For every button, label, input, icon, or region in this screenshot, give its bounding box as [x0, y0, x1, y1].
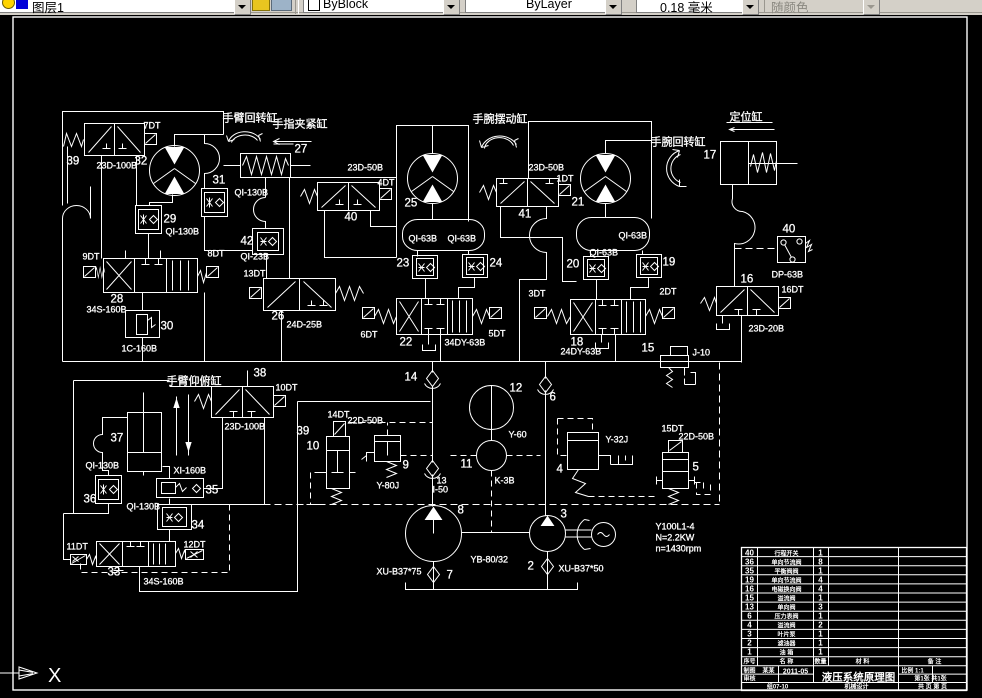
- T drain of valve 5: [695, 483, 711, 495]
- solenoid 1DT of valve 41: [559, 185, 571, 196]
- wire bridge arc left edge: [63, 187, 91, 219]
- svg-text:42: 42: [241, 236, 254, 248]
- svg-text:n=1430rpm: n=1430rpm: [656, 544, 702, 554]
- wire 27 left: [224, 165, 241, 167]
- svg-text:34DY-63B: 34DY-63B: [445, 338, 486, 348]
- wire valve41 down: [501, 207, 577, 362]
- wire motor25 top port: [432, 126, 434, 154]
- svg-text:38: 38: [254, 368, 267, 380]
- check-throttle valve 36 QI-130B: [96, 476, 122, 504]
- check-throttle valve 19 QI-63B: [637, 255, 662, 278]
- svg-text:比例 1:1: 比例 1:1: [901, 667, 924, 675]
- svg-text:15: 15: [642, 343, 655, 355]
- svg-text:平衡阀阀: 平衡阀阀: [774, 568, 798, 576]
- svg-text:J-10: J-10: [693, 348, 711, 358]
- wire line rail to pump3: [545, 362, 547, 516]
- svg-text:41: 41: [519, 209, 532, 221]
- svg-text:10: 10: [307, 441, 320, 453]
- table row lines: [742, 557, 967, 683]
- wire valve40 ports down: [325, 211, 397, 258]
- svg-text:1C-160B: 1C-160B: [122, 344, 158, 354]
- wire K3B links: [449, 455, 541, 457]
- check-throttle valve 34 QI-130B: [158, 505, 192, 530]
- wire pump3 to tank: [547, 552, 549, 590]
- T drain of valve 22: [423, 335, 436, 351]
- svg-text:34S-160B: 34S-160B: [144, 577, 184, 587]
- solenoid 15DT: [669, 441, 683, 453]
- spring left of valve 16: [701, 298, 717, 311]
- svg-text:单向阀: 单向阀: [777, 604, 795, 612]
- svg-text:22: 22: [400, 337, 413, 349]
- svg-text:3: 3: [747, 630, 752, 639]
- spring below valve 4: [573, 470, 589, 497]
- valve 10 22D-50B cartridge: [321, 437, 356, 489]
- svg-text:2: 2: [747, 639, 752, 648]
- T drain of valve 16: [717, 316, 730, 330]
- wire motor21 bottom: [605, 204, 607, 218]
- wire valve31 top stub: [204, 176, 206, 189]
- svg-text:QI-63B: QI-63B: [619, 231, 648, 241]
- spring right of valve 33: [176, 549, 186, 559]
- pump 8: [406, 506, 462, 562]
- gauge circle 12 Y-60: [470, 386, 514, 441]
- svg-text:37: 37: [111, 433, 124, 445]
- check valve 13: [425, 461, 441, 479]
- electric motor circle: [592, 523, 616, 547]
- positioning arrows: [727, 123, 775, 132]
- wire valve18 P down: [615, 335, 617, 362]
- manifold scallop under motor 25: [403, 220, 485, 251]
- svg-text:定位缸: 定位缸: [730, 110, 763, 124]
- svg-text:XI-160B: XI-160B: [174, 466, 207, 476]
- svg-text:溢流阀: 溢流阀: [777, 622, 795, 630]
- svg-text:4: 4: [818, 585, 823, 594]
- svg-text:XU-B37*50: XU-B37*50: [559, 564, 604, 574]
- svg-text:溢流阀: 溢流阀: [777, 595, 795, 603]
- motor 32: [150, 146, 200, 196]
- svg-text:1: 1: [818, 567, 823, 576]
- valve 5 22D-50B cartridge: [657, 453, 695, 489]
- svg-text:电磁换向阀: 电磁换向阀: [771, 586, 801, 594]
- check-throttle valve 31 QI-130B: [202, 189, 228, 217]
- svg-text:35: 35: [206, 485, 219, 497]
- svg-text:40: 40: [345, 212, 358, 224]
- svg-text:QI-130B: QI-130B: [127, 502, 161, 512]
- rotate arrow arc A: [227, 132, 263, 143]
- wire main pump riser: [432, 362, 434, 507]
- svg-text:X: X: [48, 665, 61, 687]
- svg-text:23D-100B: 23D-100B: [225, 422, 266, 432]
- spring box 27: [241, 154, 311, 178]
- wire 20/19 to valve 18: [591, 251, 649, 300]
- svg-text:K-3B: K-3B: [495, 476, 515, 486]
- svg-text:16DT: 16DT: [782, 285, 805, 295]
- svg-text:8: 8: [458, 505, 464, 517]
- valve 28 34S-160B body: [104, 251, 198, 293]
- solenoid 11DT: [71, 555, 87, 565]
- svg-text:QI-63B: QI-63B: [448, 234, 477, 244]
- svg-text:压力表阀: 压力表阀: [774, 613, 798, 621]
- solenoid 6DT: [363, 308, 375, 319]
- toolbar: [0, 0, 982, 15]
- wire motor32 top port: [175, 135, 205, 147]
- svg-text:10DT: 10DT: [276, 383, 299, 393]
- wire valve32 A/B lines down: [102, 156, 137, 259]
- svg-text:制图: 制图: [743, 667, 755, 675]
- valve 35 XI-160B: [157, 479, 204, 498]
- svg-text:20: 20: [567, 259, 580, 271]
- valve 15 J-10: [661, 347, 696, 388]
- spring left of valve 22: [375, 310, 397, 324]
- svg-text:备 注: 备 注: [927, 658, 942, 666]
- svg-text:手臂回转缸: 手臂回转缸: [223, 111, 278, 125]
- solenoid 2DT: [663, 308, 675, 319]
- svg-text:23D-100B: 23D-100B: [97, 161, 138, 171]
- wire group A outline top: [63, 112, 224, 362]
- cylinder 17: [721, 142, 798, 185]
- motor rotation arc: [577, 520, 590, 550]
- svg-text:1: 1: [818, 639, 823, 648]
- svg-text:1: 1: [818, 594, 823, 603]
- spring right of DP valve: [806, 241, 813, 252]
- svg-text:9DT: 9DT: [83, 252, 101, 262]
- svg-text:26: 26: [272, 311, 285, 323]
- svg-text:1: 1: [818, 630, 823, 639]
- svg-text:7: 7: [447, 570, 453, 582]
- svg-text:2: 2: [818, 621, 823, 630]
- svg-text:名 称: 名 称: [780, 658, 794, 666]
- svg-text:27: 27: [295, 144, 308, 156]
- svg-text:1: 1: [818, 612, 823, 621]
- solenoid 7DT of valve 32: [145, 134, 157, 145]
- svg-text:39: 39: [67, 156, 80, 168]
- wire group E outline: [74, 371, 248, 514]
- svg-text:第1张 共1张: 第1张 共1张: [913, 675, 947, 683]
- valve 33 34S-160B body: [97, 542, 176, 567]
- svg-text:4: 4: [747, 621, 752, 630]
- svg-text:17: 17: [704, 150, 717, 162]
- svg-text:16: 16: [745, 585, 754, 594]
- svg-text:8: 8: [818, 558, 823, 567]
- svg-text:34S-160B: 34S-160B: [87, 305, 127, 315]
- check-throttle valve 23 QI-63B: [413, 256, 438, 279]
- svg-text:4: 4: [818, 576, 823, 585]
- wire 26 down to rail: [281, 311, 283, 362]
- cylinder 37 body: [128, 393, 162, 472]
- spring right of valve 22: [473, 310, 490, 324]
- check-throttle valve 42 QI-23B: [253, 229, 284, 255]
- svg-text:手腕回转缸: 手腕回转缸: [651, 135, 706, 149]
- wire group A right bump: [205, 135, 224, 187]
- wire 29 to 28: [148, 234, 150, 259]
- svg-text:40: 40: [783, 224, 796, 236]
- spring left of valve 40: [301, 190, 318, 204]
- svg-text:23D-50B: 23D-50B: [348, 163, 384, 173]
- svg-text:6: 6: [747, 612, 752, 621]
- spring below valve 10: [332, 489, 342, 505]
- svg-text:单向节流阀: 单向节流阀: [771, 559, 801, 567]
- relief valve 4 Y-32J: [568, 433, 633, 470]
- solenoid 8DT: [207, 267, 219, 278]
- check-throttle valve 29 QI-130B: [136, 206, 162, 234]
- wire 42 down to 26: [266, 255, 268, 279]
- valve 39 spring: [64, 134, 84, 147]
- svg-text:2011-05: 2011-05: [783, 669, 808, 676]
- solenoid 5DT: [490, 308, 502, 319]
- svg-text:3DT: 3DT: [529, 289, 547, 299]
- svg-text:1: 1: [818, 549, 823, 558]
- svg-text:DP-63B: DP-63B: [772, 270, 804, 280]
- wire valve22 P down: [440, 335, 442, 362]
- wire station top edge: [298, 401, 431, 403]
- svg-text:4DT: 4DT: [378, 178, 396, 188]
- svg-text:机械设计: 机械设计: [844, 683, 868, 691]
- svg-text:23D-50B: 23D-50B: [529, 163, 565, 173]
- svg-text:YB-80/32: YB-80/32: [471, 555, 509, 565]
- wire cylinder rod rise arrows: [174, 395, 191, 456]
- pump 3: [530, 516, 566, 552]
- svg-text:Y100L1-4: Y100L1-4: [656, 522, 695, 532]
- wire motor21 top port: [606, 141, 652, 154]
- wire dashed pilot to DP valve: [735, 248, 778, 250]
- spring right of valve 28: [198, 271, 207, 283]
- relief valve 9 Y-80J: [362, 436, 401, 462]
- svg-text:行程开关: 行程开关: [773, 550, 798, 558]
- svg-text:13: 13: [745, 603, 754, 612]
- svg-text:审核: 审核: [743, 675, 755, 683]
- wire 33 return U pipe: [140, 402, 298, 592]
- spring left of valve 38: [195, 395, 212, 409]
- wire pump8 to filter: [433, 562, 435, 590]
- svg-text:31: 31: [213, 175, 226, 187]
- svg-text:9: 9: [403, 460, 409, 472]
- solenoid 16DT: [779, 298, 791, 309]
- table outer border: [742, 548, 967, 691]
- svg-text:2: 2: [528, 561, 534, 573]
- svg-text:序号: 序号: [742, 658, 755, 666]
- svg-text:Y-80J: Y-80J: [377, 481, 400, 491]
- wire 38 to 35/34: [192, 418, 265, 505]
- solenoid 14DT: [334, 422, 346, 437]
- T drain of valve 18: [596, 335, 609, 349]
- wire main rail: [63, 293, 742, 362]
- svg-text:手腕摆动缸: 手腕摆动缸: [473, 112, 528, 126]
- svg-text:14: 14: [405, 372, 418, 384]
- svg-text:30: 30: [161, 321, 174, 333]
- svg-text:某某: 某某: [762, 667, 775, 675]
- valve 40 23D-50B body: [318, 183, 380, 211]
- solenoid 4DT of valve 40: [380, 189, 392, 200]
- spring left of valve 18: [548, 310, 571, 324]
- svg-text:液压系统原理图: 液压系统原理图: [822, 671, 896, 684]
- svg-text:5: 5: [693, 462, 699, 474]
- check valve 6: [538, 377, 554, 395]
- valve 16 23D-20B body: [717, 287, 779, 316]
- dashed box around valve 4: [558, 419, 593, 456]
- wire 33 left link: [64, 514, 74, 560]
- spring left of valve 41: [480, 186, 497, 200]
- title block inner verticals: [779, 666, 933, 683]
- wire dashed box around 33: [81, 505, 230, 573]
- svg-text:35: 35: [745, 567, 754, 576]
- svg-text:I-50: I-50: [433, 485, 449, 495]
- solenoid 13DT: [250, 288, 262, 299]
- UCS icon arrow: [0, 667, 37, 679]
- svg-text:油 箱: 油 箱: [780, 649, 794, 657]
- wire dashed 4 to 5: [589, 496, 659, 498]
- wire valve16 down to rail: [741, 316, 743, 363]
- svg-text:数量: 数量: [814, 658, 826, 666]
- svg-text:3: 3: [818, 603, 823, 612]
- wire pump shaft link: [462, 532, 530, 534]
- svg-text:11DT: 11DT: [67, 542, 89, 552]
- svg-text:手臂仰俯缸: 手臂仰俯缸: [167, 374, 222, 388]
- solenoid 3DT: [535, 308, 547, 319]
- wire group B outline: [290, 126, 469, 279]
- svg-text:34: 34: [192, 520, 205, 532]
- solenoid 9DT: [84, 267, 96, 278]
- rotate arrow arc B: [480, 136, 519, 148]
- motor 21: [581, 154, 631, 204]
- svg-text:36: 36: [745, 558, 754, 567]
- svg-text:21: 21: [572, 197, 585, 209]
- svg-text:4: 4: [557, 464, 564, 476]
- finger clamp arrow: [274, 139, 312, 145]
- svg-text:13DT: 13DT: [244, 269, 267, 279]
- check valve 14: [425, 371, 441, 389]
- manifold scallop under motor 21: [577, 218, 650, 251]
- svg-text:15: 15: [745, 594, 754, 603]
- svg-text:24D-25B: 24D-25B: [287, 320, 323, 330]
- svg-text:QI-23B: QI-23B: [241, 252, 270, 262]
- wire 28 to 30: [142, 293, 144, 362]
- svg-text:XU-B37*75: XU-B37*75: [377, 567, 422, 577]
- motor shaft coupling: [566, 530, 592, 537]
- spring left of valve 28: [95, 268, 105, 278]
- wire motor32 bottom port: [150, 195, 173, 206]
- svg-text:N=2.2KW: N=2.2KW: [656, 533, 695, 543]
- wire 23/24 to valve 22: [418, 251, 475, 299]
- check-throttle valve 20 QI-63B: [584, 257, 609, 280]
- wire group C outline: [529, 122, 652, 219]
- svg-text:36: 36: [84, 494, 97, 506]
- svg-text:23D-20B: 23D-20B: [749, 324, 785, 334]
- svg-text:组07-10: 组07-10: [767, 683, 789, 691]
- valve 38 23D-100B body: [212, 387, 274, 418]
- svg-text:1: 1: [747, 648, 752, 657]
- T port below 33: [114, 567, 124, 571]
- svg-text:19: 19: [745, 576, 754, 585]
- solenoid 12DT: [186, 550, 204, 560]
- svg-text:11: 11: [461, 459, 473, 471]
- wire dashed 9 pilot: [388, 423, 433, 456]
- svg-text:Y-32J: Y-32J: [606, 435, 629, 445]
- svg-text:25: 25: [405, 198, 418, 210]
- svg-text:6: 6: [550, 392, 556, 404]
- svg-text:24: 24: [490, 258, 503, 270]
- svg-text:手指夹紧缸: 手指夹紧缸: [273, 117, 328, 131]
- svg-text:叶片泵: 叶片泵: [777, 631, 796, 639]
- wire motor25 bottom into manifold: [433, 153, 469, 222]
- svg-text:8DT: 8DT: [208, 249, 226, 259]
- wire 17 down with bump: [732, 185, 755, 287]
- wire 36 down: [74, 504, 109, 514]
- wire cyl left pipe with bump: [94, 418, 128, 476]
- wire dashed drain 10: [307, 473, 321, 505]
- spring below valve 5: [669, 489, 679, 505]
- gauge circle 11 K-3B: [477, 441, 507, 471]
- check-throttle valve 24 QI-63B: [463, 255, 488, 278]
- svg-text:40: 40: [745, 549, 754, 558]
- wire cyl bottom to 34: [144, 467, 170, 542]
- filter 7: [428, 567, 440, 583]
- tank line: [406, 583, 578, 590]
- svg-text:39: 39: [297, 426, 310, 438]
- wire 31 down to rail: [205, 217, 253, 251]
- wire 27 down bump to 42: [254, 178, 266, 229]
- motor 25: [408, 154, 458, 204]
- table column lines: [758, 548, 899, 691]
- svg-text:6DT: 6DT: [361, 330, 379, 340]
- valve 41 23D-50B body: [497, 179, 559, 207]
- svg-text:QI-130B: QI-130B: [166, 227, 200, 237]
- svg-text:Y-60: Y-60: [509, 430, 527, 440]
- svg-text:22D-50B: 22D-50B: [348, 416, 384, 426]
- svg-text:QI-63B: QI-63B: [409, 234, 438, 244]
- valve 18 24DY-63B body: [571, 300, 646, 335]
- svg-text:QI-130B: QI-130B: [86, 461, 120, 471]
- wire dashed station boundary bottom: [231, 504, 720, 506]
- svg-text:29: 29: [164, 214, 177, 226]
- status bar bottom fragments: [0, 691, 982, 698]
- valve 32 23D-100B body: [85, 124, 145, 156]
- svg-text:材 料: 材 料: [855, 658, 870, 666]
- svg-text:16: 16: [741, 274, 754, 286]
- svg-text:3: 3: [561, 509, 567, 521]
- svg-text:滤油器: 滤油器: [777, 640, 796, 648]
- rotate arrow arc C: [667, 150, 687, 187]
- svg-text:5DT: 5DT: [489, 329, 507, 339]
- svg-text:23: 23: [397, 258, 410, 270]
- valve 22 34DY-63B body: [397, 299, 473, 335]
- spring right of 26: [336, 287, 364, 301]
- svg-text:22D-50B: 22D-50B: [679, 432, 715, 442]
- svg-text:12: 12: [510, 383, 523, 395]
- wire dashed down from 11: [491, 471, 493, 533]
- svg-text:1: 1: [818, 648, 823, 657]
- svg-text:1DT: 1DT: [557, 174, 575, 184]
- filter 2: [542, 559, 554, 575]
- spring right of valve 18: [646, 310, 663, 324]
- svg-text:QI-130B: QI-130B: [235, 188, 269, 198]
- spring left of valve 33: [87, 555, 97, 565]
- spring below valve 9: [387, 462, 397, 478]
- valve 26 24D-25B body: [264, 279, 336, 311]
- svg-text:共 页 第 页: 共 页 第 页: [918, 683, 947, 691]
- svg-text:单向节流阀: 单向节流阀: [771, 577, 801, 585]
- valve 40 DP-63B pilot valve: [778, 237, 806, 263]
- svg-text:19: 19: [663, 257, 676, 269]
- solenoid 10DT: [274, 396, 286, 407]
- wire dashed pilot 10: [338, 422, 433, 423]
- svg-text:2DT: 2DT: [660, 287, 678, 297]
- valve 30 1C-160B: [126, 311, 160, 338]
- wire dashed station boundary right: [719, 363, 721, 505]
- svg-text:12DT: 12DT: [184, 540, 207, 550]
- svg-text:7DT: 7DT: [144, 121, 162, 131]
